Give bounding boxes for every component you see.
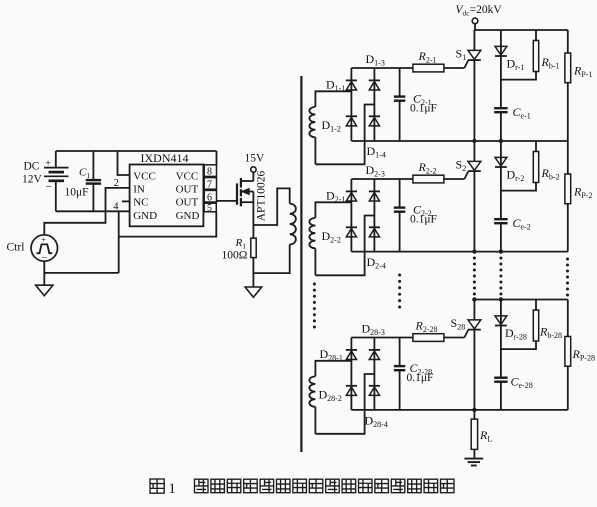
pulse source Ctrl xyxy=(31,235,57,264)
label Dr-1 xyxy=(507,56,525,72)
wire D column 2 xyxy=(500,141,502,252)
label C2-2 xyxy=(413,203,432,219)
battery minus sign xyxy=(46,181,52,193)
wire stage 1 anode rail xyxy=(474,29,567,31)
svg-text:D28-4: D28-4 xyxy=(365,413,388,429)
wire stage 1 gate rail xyxy=(351,67,464,69)
svg-text:R2-1: R2-1 xyxy=(418,49,437,64)
resistor Rb-28 xyxy=(501,300,539,350)
transformer primary winding xyxy=(290,204,296,245)
ground symbol below R1 xyxy=(245,287,262,297)
thyristor S28 xyxy=(464,300,480,410)
dotted C2 column continuation xyxy=(398,274,401,309)
svg-text:RP-2: RP-2 xyxy=(573,185,592,201)
capacitor Ce-28 xyxy=(494,378,507,382)
wire bottom ground rail (battery - to IC GND pin) xyxy=(56,210,130,212)
diode Dr-2 xyxy=(495,157,507,167)
label C2-28 xyxy=(410,361,433,377)
label D1-3 xyxy=(366,52,385,68)
svg-text:1: 1 xyxy=(169,481,176,497)
label 10uF xyxy=(65,187,89,199)
label D1-2 xyxy=(322,118,341,134)
label Rp-28 xyxy=(572,347,595,363)
svg-text:OUT: OUT xyxy=(176,197,199,209)
resistor RL xyxy=(471,419,477,449)
wire pin-8 VCC drop xyxy=(216,151,218,165)
svg-text:Rb-28: Rb-28 xyxy=(539,324,562,340)
diode D2-3 xyxy=(369,191,380,201)
pin number 4 xyxy=(113,202,119,213)
transistor Q1 APT10026 MOSFET xyxy=(237,178,253,206)
diode Dr-28 xyxy=(495,316,507,326)
svg-text:−: − xyxy=(46,181,52,193)
diode D2-1 xyxy=(346,191,357,201)
capacitor C2-2 0.1uF xyxy=(394,179,405,252)
label C1 xyxy=(79,167,90,181)
diode D1-1 xyxy=(346,80,357,90)
label R2-28 xyxy=(415,319,438,335)
dotted Rp column continuation xyxy=(566,258,569,297)
ic pin name NC xyxy=(133,197,148,209)
wire Ctrl - to ground net xyxy=(44,261,118,273)
svg-text:S2: S2 xyxy=(456,158,467,174)
wire bridge left column 28 xyxy=(350,338,352,410)
resistor R2-2 xyxy=(413,175,444,183)
terminal Vdc 20kV xyxy=(472,18,478,30)
label APT10026 xyxy=(256,171,268,222)
wire ground net to pin 5 xyxy=(119,212,217,237)
wire VCC left pin to top rail xyxy=(118,151,130,175)
label Dr-28 xyxy=(505,326,527,342)
svg-text:D1-3: D1-3 xyxy=(366,52,385,68)
label Rb-1 xyxy=(541,55,560,71)
svg-text:Vdc=20kV: Vdc=20kV xyxy=(456,4,503,18)
wire MOSFET source down to R1 xyxy=(252,192,254,239)
ic U1 IXDN414 body xyxy=(130,165,204,227)
label Ctrl xyxy=(7,242,25,254)
diode D2-4 xyxy=(369,227,380,237)
pin NC stub xyxy=(122,200,130,202)
svg-text:+: + xyxy=(41,235,46,245)
label R2-2 xyxy=(418,160,437,176)
label 0.1uF 2 xyxy=(410,214,437,226)
pin 8 box xyxy=(204,165,216,178)
ic pin name GND right xyxy=(176,210,200,222)
resistor R1 xyxy=(251,238,256,258)
junction dots stage rails xyxy=(472,139,503,412)
svg-text:RP-28: RP-28 xyxy=(572,347,595,363)
diode D1-4 xyxy=(369,116,380,126)
resistor R2-1 xyxy=(413,64,444,72)
label 12V xyxy=(22,173,43,185)
label S1 xyxy=(456,47,467,63)
wire top supply rail (battery + to pin 8) xyxy=(56,150,217,152)
label D2-4 xyxy=(367,255,386,271)
pin 6 box xyxy=(204,190,216,203)
resistor Rb-2 xyxy=(501,141,539,191)
wire bridge right column 28 xyxy=(373,338,375,410)
label Ce-28 xyxy=(511,374,533,390)
svg-text:Ce-28: Ce-28 xyxy=(511,374,533,390)
svg-text:GND: GND xyxy=(176,210,200,222)
svg-text:10μF: 10μF xyxy=(65,187,89,199)
svg-text:IXDN414: IXDN414 xyxy=(141,151,189,165)
svg-text:D2-4: D2-4 xyxy=(367,255,386,271)
wire source to primary top xyxy=(253,188,289,225)
wire secondary bottom to bridge 2 xyxy=(315,216,374,276)
label Ce-1 xyxy=(513,105,531,121)
ground symbol below Ctrl xyxy=(36,273,53,296)
label Rp-2 xyxy=(573,185,592,201)
label Ce-2 xyxy=(513,216,531,232)
resistor R2-28 xyxy=(413,334,444,342)
transformer core xyxy=(300,76,302,452)
pin number 2 xyxy=(114,178,119,189)
svg-text:RL: RL xyxy=(479,428,492,444)
wire stage 2 cathode rail xyxy=(351,251,567,253)
thyristor S1 xyxy=(464,30,480,141)
label S2 xyxy=(456,158,467,174)
transformer secondary winding 2 xyxy=(309,202,351,275)
wire primary bottom return xyxy=(253,244,289,273)
capacitor C1 10uF xyxy=(86,151,101,211)
thyristor S2 xyxy=(464,141,480,252)
svg-text:Rb-2: Rb-2 xyxy=(541,166,560,182)
ic pin name OUT lower xyxy=(176,197,199,209)
svg-text:S1: S1 xyxy=(456,47,467,63)
label C2-1 xyxy=(413,92,432,108)
wire D column 1 xyxy=(500,30,502,141)
wire bridge right column 2 xyxy=(373,179,375,252)
svg-text:D2-3: D2-3 xyxy=(366,163,385,179)
ic pin name IN xyxy=(133,184,145,196)
svg-text:Ce-2: Ce-2 xyxy=(513,216,531,232)
label D2-1 xyxy=(326,189,345,205)
label 0.1uF 1 xyxy=(410,103,437,115)
battery DC 12V xyxy=(44,151,69,211)
battery plus sign xyxy=(45,159,51,170)
svg-text:DC: DC xyxy=(24,160,40,172)
caption figure 1 text xyxy=(150,479,454,497)
transformer secondary winding 1 xyxy=(309,91,351,164)
dotted bus continuation xyxy=(473,257,476,296)
svg-text:R2-28: R2-28 xyxy=(415,319,438,335)
wire stage 28 anode rail xyxy=(474,299,567,301)
label 15V xyxy=(245,152,266,164)
label D28-4 xyxy=(365,413,388,429)
wire IN pin to Ctrl + xyxy=(44,188,129,235)
svg-text:15V: 15V xyxy=(245,152,266,164)
svg-text:D28-3: D28-3 xyxy=(362,321,385,337)
label DC xyxy=(24,160,40,172)
wire stage 28 gate rail xyxy=(351,337,464,339)
wire bridge left column 2 xyxy=(350,179,352,252)
wire cathode to RL xyxy=(473,410,475,419)
svg-text:Ctrl: Ctrl xyxy=(7,242,25,254)
svg-text:NC: NC xyxy=(133,197,148,209)
svg-text:IN: IN xyxy=(133,184,145,196)
label 0.1uF 28 xyxy=(407,372,434,384)
svg-text:D1-2: D1-2 xyxy=(322,118,341,134)
capacitor Ce-1 xyxy=(494,108,507,112)
label Vdc=20kV xyxy=(456,4,503,18)
svg-text:4: 4 xyxy=(113,202,119,213)
svg-text:0.1μF: 0.1μF xyxy=(410,103,437,115)
svg-text:Rb-1: Rb-1 xyxy=(541,55,560,71)
label D2-3 xyxy=(366,163,385,179)
svg-text:VCC: VCC xyxy=(176,171,199,183)
svg-text:7: 7 xyxy=(207,180,212,191)
label D1-1 xyxy=(326,78,345,94)
svg-text:Dr-2: Dr-2 xyxy=(507,167,525,183)
earth ground symbol xyxy=(464,459,483,466)
dotted secondary continuation xyxy=(313,283,316,329)
wire bridge left column 1 xyxy=(350,68,352,141)
resistor Rp-2 xyxy=(565,141,571,252)
svg-text:D1-4: D1-4 xyxy=(367,144,386,160)
wire secondary bottom to bridge 1 xyxy=(315,105,374,165)
wire R1 to ground xyxy=(252,258,254,287)
label Rb-28 xyxy=(539,324,562,340)
capacitor Ce-2 xyxy=(494,219,507,223)
svg-text:S28: S28 xyxy=(451,316,466,332)
svg-text:6: 6 xyxy=(207,192,212,203)
ic pin name OUT upper xyxy=(176,184,199,196)
diode D1-3 xyxy=(369,80,380,90)
diode D28-4 xyxy=(369,386,380,396)
svg-text:Dr-28: Dr-28 xyxy=(505,326,527,342)
svg-text:VCC: VCC xyxy=(133,171,156,183)
wire D column 28 xyxy=(500,300,502,410)
wire pin 6 OUT to MOSFET gate xyxy=(217,200,237,202)
label D28-2 xyxy=(319,387,342,403)
label 100 ohm xyxy=(222,249,248,261)
wire stage 1 cathode rail xyxy=(351,140,567,142)
label RL xyxy=(479,428,492,444)
label R2-1 xyxy=(418,49,437,64)
label IXDN414 xyxy=(141,151,189,165)
wire ground net vertical xyxy=(118,211,120,273)
diode D28-1 xyxy=(346,350,357,360)
diode D28-2 xyxy=(346,386,357,396)
svg-text:Ce-1: Ce-1 xyxy=(513,105,531,121)
svg-text:−: − xyxy=(42,253,48,264)
svg-text:5: 5 xyxy=(207,203,212,214)
resistor Rb-1 xyxy=(501,30,539,80)
wire RL to earth xyxy=(473,449,475,458)
capacitor C2-1 0.1uF xyxy=(394,68,405,141)
capacitor C2-28 0.1uF xyxy=(394,338,405,410)
label Rp-1 xyxy=(573,64,592,80)
label S28 xyxy=(451,316,466,332)
ic pin name VCC right xyxy=(176,171,199,183)
resistor Rp-28 xyxy=(565,300,571,410)
label D28-1 xyxy=(320,347,343,363)
ic pin name GND left xyxy=(133,210,157,222)
wire stage 28 cathode rail xyxy=(351,409,567,411)
label D2-2 xyxy=(322,229,341,245)
terminal 15V xyxy=(251,167,256,181)
pin 5 box xyxy=(204,203,216,214)
pin 7 box xyxy=(204,178,216,191)
wire secondary bottom to bridge 28 xyxy=(315,374,374,434)
svg-text:+: + xyxy=(45,159,51,170)
svg-text:8: 8 xyxy=(207,167,212,178)
svg-text:APT10026: APT10026 xyxy=(256,171,268,222)
svg-text:0.1μF: 0.1μF xyxy=(407,372,434,384)
label Dr-2 xyxy=(507,167,525,183)
label Rb-2 xyxy=(541,166,560,182)
svg-text:D28-2: D28-2 xyxy=(319,387,342,403)
label D28-3 xyxy=(362,321,385,337)
svg-text:12V: 12V xyxy=(22,173,43,185)
svg-text:C1: C1 xyxy=(79,167,90,181)
label D1-4 xyxy=(367,144,386,160)
diode D2-2 xyxy=(346,227,357,237)
dotted D column continuation xyxy=(499,257,502,296)
svg-text:D2-2: D2-2 xyxy=(322,229,341,245)
svg-text:OUT: OUT xyxy=(176,184,199,196)
ic pin name VCC left xyxy=(133,171,156,183)
wire stage 2 gate rail xyxy=(351,178,464,180)
svg-text:R1: R1 xyxy=(235,237,247,251)
label R1 xyxy=(235,237,247,251)
transformer secondary winding 28 xyxy=(309,361,351,434)
svg-text:RP-1: RP-1 xyxy=(573,64,592,80)
diode D28-3 xyxy=(369,350,380,360)
svg-text:0.1μF: 0.1μF xyxy=(410,214,437,226)
resistor Rp-1 xyxy=(565,30,571,141)
svg-text:Dr-1: Dr-1 xyxy=(507,56,525,72)
svg-text:100Ω: 100Ω xyxy=(222,249,248,261)
diode D1-2 xyxy=(346,116,357,126)
svg-text:R2-2: R2-2 xyxy=(418,160,437,176)
svg-text:GND: GND xyxy=(133,210,157,222)
wire bridge right column 1 xyxy=(373,68,375,141)
diode Dr-1 xyxy=(495,46,507,56)
